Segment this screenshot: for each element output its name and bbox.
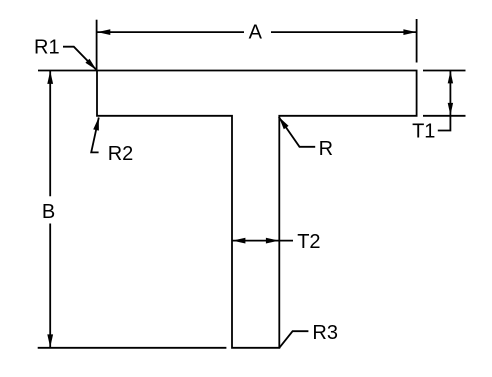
svg-text:B: B <box>42 201 55 223</box>
dimension B arrowhead top <box>47 71 53 84</box>
svg-text:R3: R3 <box>312 322 338 344</box>
dimension T1 arrowhead top <box>448 71 453 84</box>
dimension A arrowhead right <box>403 29 416 35</box>
leader R1 arrowhead <box>85 59 96 70</box>
dimension B line upper segment <box>49 71 51 196</box>
dimension A arrowhead left <box>97 29 110 35</box>
dimension A line left segment <box>98 31 245 33</box>
svg-text:R1: R1 <box>34 36 60 58</box>
dimension A extension line right <box>416 19 418 63</box>
leader R1 <box>63 47 96 70</box>
dimension T2 line <box>232 240 293 242</box>
T-section outline <box>97 71 417 348</box>
dimension A line right segment <box>271 31 417 33</box>
leader R3 <box>279 331 308 348</box>
dimension B extension line top <box>38 70 97 72</box>
dimension B arrowhead bottom <box>47 334 53 347</box>
dimension T2 arrowhead left <box>232 238 245 244</box>
svg-text:T1: T1 <box>412 120 435 142</box>
svg-text:T2: T2 <box>297 231 320 253</box>
dimension T1 label hook <box>438 116 451 131</box>
leader R2 arrowhead <box>93 117 99 130</box>
dimension T1 arrowhead bottom <box>448 103 453 116</box>
dimension T1 extension line top <box>423 70 466 72</box>
leader R <box>279 117 315 147</box>
dimension T2 arrowhead right <box>266 238 279 244</box>
svg-text:R: R <box>319 138 333 160</box>
leader R arrowhead <box>279 117 289 129</box>
dimension A extension line left <box>96 20 98 71</box>
svg-text:R2: R2 <box>108 143 134 165</box>
dimension B extension line bottom <box>38 347 227 349</box>
dimension T1 line <box>449 71 451 116</box>
dimension B line lower segment <box>49 224 51 348</box>
svg-text:A: A <box>249 22 263 44</box>
leader R2 <box>91 118 99 153</box>
dimension T1 extension line bottom <box>423 115 466 117</box>
